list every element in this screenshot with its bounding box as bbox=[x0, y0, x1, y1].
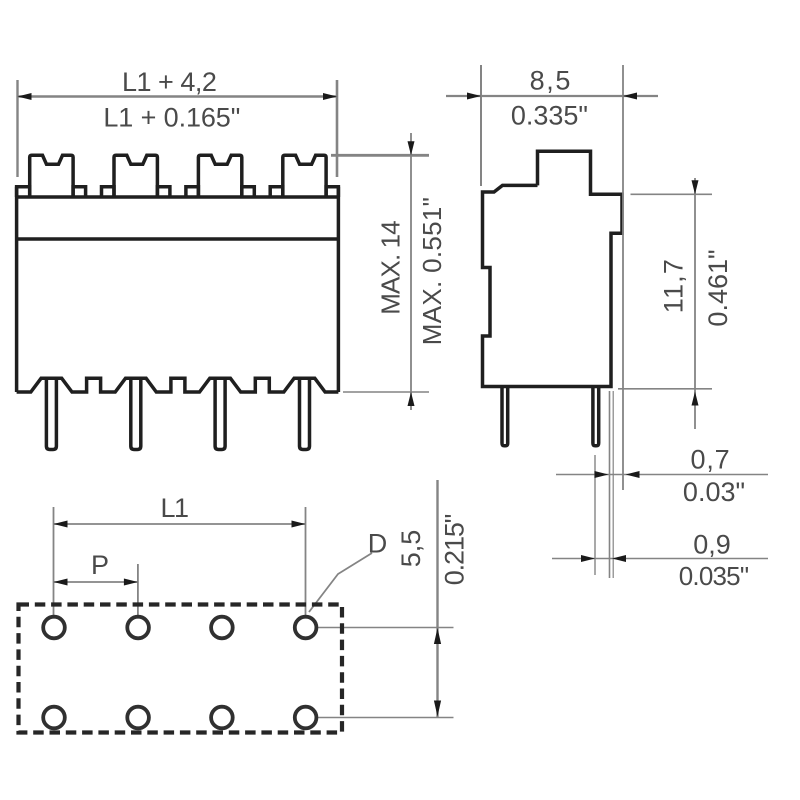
arrow 5,5 bottom (down) bbox=[434, 701, 441, 717]
front view bottom profile bbox=[17, 378, 339, 392]
leader line D bbox=[309, 553, 372, 612]
footprint dim P line bbox=[54, 581, 138, 583]
svg-text:11,7: 11,7 bbox=[659, 258, 689, 313]
svg-text:0.035": 0.035" bbox=[679, 561, 749, 591]
footprint holes bottom row bbox=[43, 707, 65, 729]
front view pin 4 bbox=[300, 378, 310, 449]
dim MAX14 extension top bbox=[331, 154, 429, 157]
footprint dim L1 extension right bbox=[305, 507, 307, 616]
front view pin 2 bbox=[131, 378, 141, 449]
dim L1+4,2 extension left bbox=[16, 80, 18, 177]
arrow L1+4,2 left bbox=[18, 93, 32, 100]
arrow 0,7 right bbox=[626, 471, 640, 478]
dim 11,7 line bbox=[694, 178, 696, 429]
dim 8,5 extension right bbox=[622, 65, 624, 490]
dim 5,5 extension top bbox=[318, 627, 454, 629]
arrow 8,5 left (outside) bbox=[467, 93, 481, 100]
front view pin 1 bbox=[46, 378, 56, 449]
front view pin 3 bbox=[215, 378, 225, 449]
front view clamp 1 bbox=[30, 155, 73, 197]
dim 5,5 extension bottom bbox=[318, 717, 454, 719]
svg-text:P: P bbox=[91, 550, 109, 580]
svg-text:0.03": 0.03" bbox=[683, 477, 745, 507]
front view clamp 2 bbox=[114, 155, 157, 197]
dim 8,5 extension left bbox=[480, 65, 482, 186]
arrow 0,7 left bbox=[595, 471, 609, 478]
dim MAX14 line bbox=[410, 133, 412, 410]
svg-text:L1: L1 bbox=[160, 493, 188, 523]
arrow L1 right bbox=[292, 521, 306, 528]
dim L1+4,2 line bbox=[18, 95, 338, 97]
side view pin left bbox=[502, 387, 508, 446]
dim 11,7 extension bottom bbox=[618, 388, 712, 390]
arrow L1+4,2 right bbox=[323, 93, 337, 100]
front view clamp 3 bbox=[198, 155, 241, 197]
arrow 8,5 right (outside) bbox=[623, 93, 637, 100]
svg-text:0,7: 0,7 bbox=[691, 445, 731, 475]
dim 8,5 line bbox=[446, 95, 658, 97]
dim 5,5 line bbox=[436, 480, 438, 718]
dim 0,7 line bbox=[556, 474, 768, 476]
svg-text:0.461": 0.461" bbox=[703, 249, 733, 326]
front view right edge bbox=[337, 187, 341, 392]
arrow 5,5 top (up) bbox=[434, 628, 441, 644]
body edge extensions below side view bbox=[609, 391, 611, 578]
side view outline bbox=[483, 151, 623, 386]
arrow P right bbox=[124, 579, 138, 586]
arrow 0,9 right bbox=[612, 555, 626, 562]
dim 0,9 line bbox=[552, 558, 768, 560]
dimension lines (grey) bbox=[18, 65, 769, 718]
arrow P left bbox=[54, 579, 68, 586]
footprint holes top row bbox=[43, 617, 316, 729]
side view pin right bbox=[593, 387, 599, 446]
dim L1+4,2 extension right bbox=[336, 80, 339, 177]
svg-text:D: D bbox=[368, 529, 388, 559]
arrow L1 left bbox=[54, 521, 68, 528]
arrowheads bbox=[18, 93, 699, 717]
svg-text:8,5: 8,5 bbox=[530, 66, 572, 96]
svg-text:L1 + 4,2: L1 + 4,2 bbox=[122, 67, 216, 97]
footprint dashed outline bbox=[19, 605, 343, 733]
svg-text:L1 + 0.165": L1 + 0.165" bbox=[103, 103, 240, 133]
footprint dim P extension bbox=[137, 564, 139, 616]
svg-text:MAX. 14: MAX. 14 bbox=[375, 221, 405, 315]
svg-text:0.335": 0.335" bbox=[511, 101, 588, 131]
arrow MAX14 top (outside, down) bbox=[408, 141, 415, 155]
front view second line bbox=[17, 237, 339, 241]
arrow 0,9 left bbox=[581, 555, 595, 562]
pin extension below side view bbox=[594, 455, 596, 575]
svg-text:5,5: 5,5 bbox=[396, 530, 426, 568]
front view clamp 4 bbox=[283, 155, 326, 197]
svg-text:MAX. 0.551": MAX. 0.551" bbox=[417, 197, 447, 345]
dim 11,7 extension top bbox=[631, 193, 713, 195]
svg-text:0,9: 0,9 bbox=[693, 530, 731, 560]
footprint dim L1 line bbox=[54, 523, 306, 525]
arrow 11,7 top (outside, down) bbox=[692, 180, 699, 194]
arrow MAX14 bottom (outside, up) bbox=[408, 392, 415, 406]
front view body top line bbox=[17, 195, 339, 199]
arrow 11,7 bottom (outside, up) bbox=[692, 392, 699, 406]
front view left edge bbox=[15, 187, 19, 392]
footprint dim L1 extension left bbox=[53, 507, 55, 616]
dim MAX14 extension bottom bbox=[343, 391, 429, 393]
svg-text:0.215": 0.215" bbox=[440, 514, 470, 585]
front view tabs bbox=[17, 187, 30, 197]
